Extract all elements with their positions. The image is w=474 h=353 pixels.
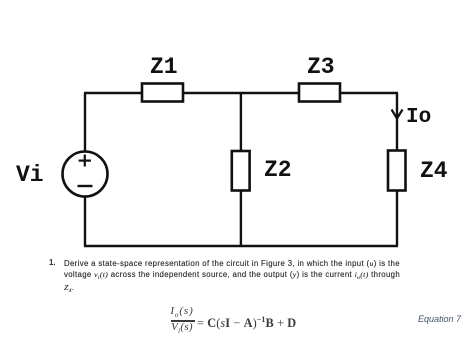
svg-text:Z3: Z3 — [307, 54, 335, 80]
label Z4 — [420, 158, 448, 184]
voltage source Vi — [63, 152, 108, 197]
label Z2 — [264, 157, 292, 183]
equation 7 — [169, 306, 195, 320]
wire: right vertical through Z4 — [396, 93, 398, 246]
label Io — [406, 106, 431, 129]
svg-text:Z2: Z2 — [264, 157, 292, 183]
equation label — [418, 314, 461, 324]
wire: left vertical through Vi — [84, 93, 86, 246]
current arrow Io — [392, 110, 403, 119]
impedance Z3 — [299, 84, 340, 102]
label Z1 — [150, 54, 178, 80]
impedance Z4 — [388, 151, 406, 191]
wire: middle vertical through Z2 — [240, 93, 242, 246]
wire: top rail from Vi to top-right corner — [84, 92, 398, 94]
svg-text:Z4: Z4 — [420, 158, 448, 184]
label Z3 — [307, 54, 335, 80]
svg-text:Z1: Z1 — [150, 54, 178, 80]
wire: bottom rail — [84, 245, 398, 247]
svg-text:Vi: Vi — [16, 162, 44, 188]
impedance Z2 — [232, 151, 250, 191]
problem statement text — [49, 258, 56, 267]
svg-text:Io: Io — [406, 106, 431, 129]
impedance Z1 — [142, 84, 183, 102]
label Vi — [16, 162, 44, 188]
